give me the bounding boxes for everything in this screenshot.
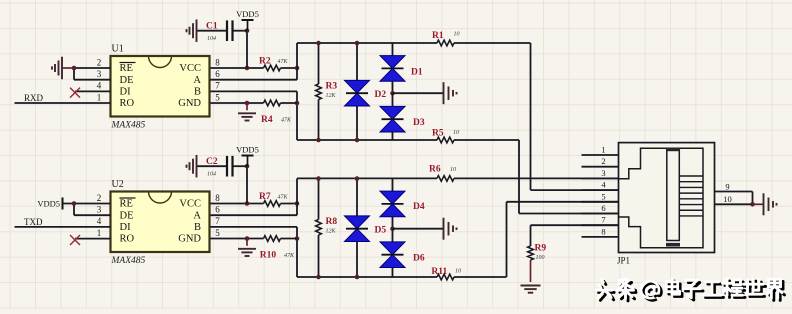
svg-text:RO: RO xyxy=(120,234,135,245)
svg-text:100: 100 xyxy=(536,255,545,261)
svg-text:R3: R3 xyxy=(326,82,338,92)
svg-text:D1: D1 xyxy=(411,68,423,78)
svg-text:R11: R11 xyxy=(431,267,447,277)
svg-text:D5: D5 xyxy=(375,226,387,236)
svg-text:10: 10 xyxy=(723,194,732,204)
svg-text:7: 7 xyxy=(601,215,605,225)
svg-text:R4: R4 xyxy=(261,115,273,125)
svg-text:C1: C1 xyxy=(206,22,218,32)
svg-text:9: 9 xyxy=(725,182,729,192)
svg-text:8: 8 xyxy=(601,226,605,236)
svg-text:DE: DE xyxy=(120,210,134,221)
svg-text:R1: R1 xyxy=(432,31,444,41)
svg-text:DE: DE xyxy=(120,75,134,86)
svg-text:5: 5 xyxy=(601,191,605,201)
svg-text:2: 2 xyxy=(601,156,605,166)
svg-text:RO: RO xyxy=(120,98,135,109)
svg-text:6: 6 xyxy=(215,69,220,79)
svg-text:VCC: VCC xyxy=(179,199,201,210)
svg-text:5: 5 xyxy=(215,92,220,102)
svg-text:R2: R2 xyxy=(259,57,271,67)
svg-text:U2: U2 xyxy=(112,179,124,190)
svg-text:VCC: VCC xyxy=(179,63,201,74)
svg-text:GND: GND xyxy=(178,234,201,245)
svg-text:10: 10 xyxy=(453,130,459,136)
svg-text:VDD5: VDD5 xyxy=(236,9,259,19)
svg-text:2: 2 xyxy=(97,57,102,67)
svg-text:12K: 12K xyxy=(326,229,337,235)
svg-text:7: 7 xyxy=(215,81,220,91)
svg-text:D6: D6 xyxy=(413,254,425,264)
svg-text:MAX485: MAX485 xyxy=(111,121,146,131)
svg-text:3: 3 xyxy=(97,205,102,215)
svg-text:MAX485: MAX485 xyxy=(111,256,146,266)
svg-text:R8: R8 xyxy=(326,217,338,227)
svg-text:B: B xyxy=(194,87,201,98)
svg-text:DI: DI xyxy=(120,87,132,98)
svg-text:TXD: TXD xyxy=(24,217,43,227)
svg-text:5: 5 xyxy=(215,228,220,238)
svg-text:104: 104 xyxy=(207,171,216,178)
svg-text:6: 6 xyxy=(215,205,220,215)
svg-text:4: 4 xyxy=(97,216,102,226)
svg-text:4: 4 xyxy=(97,81,102,91)
svg-text:GND: GND xyxy=(178,98,201,109)
svg-text:RXD: RXD xyxy=(24,93,44,103)
svg-text:VDD5: VDD5 xyxy=(236,145,259,155)
svg-text:D2: D2 xyxy=(375,90,387,100)
svg-text:R10: R10 xyxy=(260,251,277,261)
svg-text:47K: 47K xyxy=(278,194,289,201)
svg-text:8: 8 xyxy=(215,57,220,67)
svg-text:R7: R7 xyxy=(259,192,271,202)
svg-text:JP1: JP1 xyxy=(617,256,630,266)
svg-text:7: 7 xyxy=(215,216,220,226)
svg-text:47K: 47K xyxy=(284,252,295,259)
svg-text:10: 10 xyxy=(455,269,461,275)
svg-text:A: A xyxy=(193,210,201,221)
svg-text:3: 3 xyxy=(97,69,102,79)
svg-text:8: 8 xyxy=(215,193,220,203)
svg-text:C2: C2 xyxy=(206,157,218,167)
svg-text:RE: RE xyxy=(120,199,133,210)
svg-text:12K: 12K xyxy=(326,93,337,99)
svg-text:D3: D3 xyxy=(413,118,425,128)
svg-text:47K: 47K xyxy=(278,58,289,65)
svg-text:10: 10 xyxy=(450,167,456,173)
svg-text:1: 1 xyxy=(97,228,102,238)
svg-text:VDD5: VDD5 xyxy=(37,199,60,209)
svg-text:47K: 47K xyxy=(281,117,292,124)
svg-text:R9: R9 xyxy=(535,244,547,254)
svg-text:U1: U1 xyxy=(112,44,124,55)
svg-text:6: 6 xyxy=(601,203,605,213)
svg-text:10: 10 xyxy=(454,32,460,38)
svg-text:R6: R6 xyxy=(429,165,441,175)
svg-text:B: B xyxy=(194,222,201,233)
svg-text:R5: R5 xyxy=(432,129,444,139)
svg-text:D4: D4 xyxy=(413,202,425,212)
svg-text:RE: RE xyxy=(120,63,133,74)
svg-text:1: 1 xyxy=(601,145,605,155)
svg-text:DI: DI xyxy=(120,222,132,233)
svg-text:3: 3 xyxy=(601,168,605,178)
svg-text:1: 1 xyxy=(97,92,102,102)
svg-text:2: 2 xyxy=(97,193,102,203)
svg-text:104: 104 xyxy=(207,35,216,42)
svg-text:A: A xyxy=(193,75,201,86)
